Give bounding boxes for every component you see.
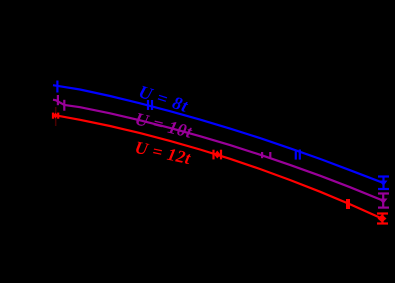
error bar caps at blue point 2 xyxy=(147,100,149,110)
faint dark red vertical error bar at red point 1 xyxy=(55,107,57,126)
error bar caps at blue point 3 xyxy=(295,150,297,160)
wire: purple polyline xyxy=(53,100,383,201)
error bar caps at red point 1 xyxy=(52,113,54,119)
vertical error bar at purple end point xyxy=(382,194,384,208)
marker diamond at red point 2 xyxy=(214,151,221,159)
error bar caps at purple point 3 xyxy=(261,152,263,158)
marker diamond at red end point xyxy=(378,215,387,223)
error bar cap at purple point 2 xyxy=(63,100,65,111)
vertical error bar at red end point xyxy=(381,214,383,224)
error bar cap at purple point 1 xyxy=(57,95,59,105)
series U=8t (blue) xyxy=(53,81,389,190)
vertical error bar at blue end point xyxy=(382,177,384,190)
error bar cap at first blue point xyxy=(56,81,58,93)
thick error bar at red point 3 xyxy=(346,199,350,209)
marker arrow at purple end point xyxy=(379,199,388,205)
marker diamond at red point 1 xyxy=(53,113,58,119)
wire: blue polyline xyxy=(53,85,383,183)
marker arrow at blue end point xyxy=(379,181,388,187)
wire: red polyline xyxy=(56,115,384,219)
series U=10t (purple) xyxy=(53,95,389,208)
error bar caps at red point 2 xyxy=(212,150,214,160)
